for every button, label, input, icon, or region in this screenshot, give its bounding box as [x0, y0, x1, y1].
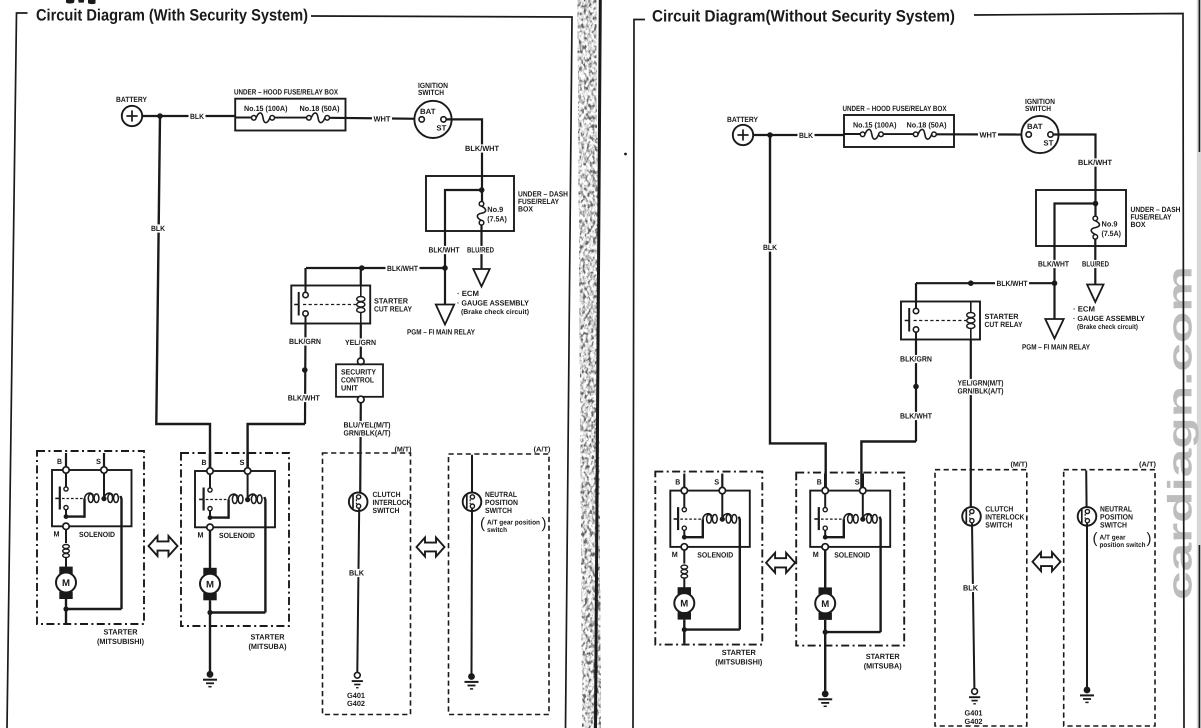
scan gutter dark line [596, 0, 601, 728]
svg-text:Circuit Diagram (With Security: Circuit Diagram (With Security System) [36, 6, 308, 24]
wire relay leg to starter S (right) [861, 442, 916, 492]
double arrow M/T-A/T (right) [1033, 552, 1061, 571]
svg-text:BLK/GRN: BLK/GRN [900, 355, 932, 364]
svg-text:UNDER – HOOD FUSE/RELAY BOX: UNDER – HOOD FUSE/RELAY BOX [843, 104, 947, 113]
node BLK/WHT T junction [442, 265, 448, 271]
label BLK (M/T right) [962, 584, 980, 592]
node under-dash junction [479, 187, 485, 193]
node splice BLK/GRN-BLK/WHT [302, 367, 308, 373]
node under-dash junction (right) [1093, 201, 1099, 207]
security control unit (left) [358, 358, 365, 365]
svg-text:A/T gear: A/T gear [1100, 535, 1126, 542]
svg-text:SWITCH: SWITCH [985, 521, 1012, 530]
label BLU/YEL(M/T) GRN/BLK(A/T) [342, 421, 392, 429]
wire battery down to starter B (right) [770, 135, 826, 491]
wire relay contact leg up (right) [915, 283, 917, 301]
svg-text:G402: G402 [965, 717, 983, 726]
svg-text:BLK/WHT: BLK/WHT [465, 144, 499, 153]
wire relay coil to security unit [360, 324, 362, 359]
triangle connector ECM (right) [1087, 285, 1103, 303]
dashed box M/T (right) [935, 470, 1027, 726]
svg-text:BLK: BLK [799, 131, 813, 140]
wire ignition ST down (right) [1053, 135, 1095, 217]
svg-text:BLK/WHT: BLK/WHT [1078, 158, 1112, 167]
neutral position switch (right) [1078, 507, 1097, 526]
svg-text:PGM – FI MAIN RELAY: PGM – FI MAIN RELAY [1022, 343, 1090, 352]
svg-text:BLK/WHT: BLK/WHT [997, 279, 1028, 288]
svg-text:): ) [1147, 530, 1152, 547]
svg-text:BAT: BAT [1027, 122, 1043, 131]
ground A/T (left) [468, 673, 475, 680]
label BLK/WHT ignition (right) [1077, 158, 1114, 166]
svg-text:UNIT: UNIT [341, 384, 358, 393]
svg-text:ST: ST [1043, 139, 1053, 148]
node relay coil junction (right) [968, 280, 974, 286]
svg-text:BLK: BLK [151, 224, 165, 233]
label YEL/GRN(M/T) GRN/BLK(A/T) [956, 379, 1005, 387]
svg-text:SWITCH: SWITCH [485, 506, 512, 515]
wire neutral switch to ground (right) [1086, 523, 1088, 687]
label BLK vertical (right) [762, 243, 779, 251]
svg-text:No.18 (50A): No.18 (50A) [300, 104, 340, 113]
triangle connector ECM (left) [473, 269, 489, 287]
svg-text:GRN/BLK(A/T): GRN/BLK(A/T) [344, 429, 391, 438]
node battery junction (right) [767, 132, 773, 138]
label YEL/GRN [344, 338, 378, 346]
svg-text:BOX: BOX [1131, 220, 1146, 229]
svg-text:BLU/RED: BLU/RED [467, 246, 494, 255]
ground A/T (right) [1084, 687, 1091, 694]
svg-text:WHT: WHT [374, 115, 391, 124]
wire relay coil leg up [360, 268, 362, 286]
svg-text:G402: G402 [347, 699, 365, 708]
label BLU/RED (right) [1081, 260, 1111, 268]
svg-text:BLK/WHT: BLK/WHT [1038, 260, 1069, 269]
label BLU/RED [466, 246, 496, 254]
fuse No.9 7.5A (right) [1093, 216, 1098, 221]
wire under-dash internal left leg (right) [1055, 204, 1096, 284]
wire battery to fuse box [753, 134, 844, 136]
svg-text:BLU/RED: BLU/RED [1082, 260, 1109, 269]
svg-text:No.9: No.9 [1102, 220, 1118, 229]
triangle connector PGM-FI (right) [1045, 319, 1063, 339]
wire fuse box to ignition (right) [936, 133, 1026, 135]
wire to PGM-FI relay triangle [444, 268, 446, 305]
under-hood fuse/relay box (right) [844, 115, 954, 147]
label WHT (right) [978, 131, 998, 139]
starter MITSUBA (left page) [181, 453, 289, 687]
wire relay coil down to clutch switch (right) [970, 340, 972, 510]
label BLK/GRN (right) [899, 355, 934, 363]
svg-text:BAT: BAT [420, 107, 436, 116]
wire relay contact leg down BLK/GRN (right) [915, 340, 917, 442]
svg-text:position switch: position switch [1100, 542, 1146, 549]
label BLK [189, 112, 206, 120]
svg-text:(7.5A): (7.5A) [487, 215, 507, 224]
svg-text:No.15 (100A): No.15 (100A) [853, 121, 897, 130]
wire horizontal BLK/WHT bus (right) [916, 282, 1055, 284]
svg-text:(Brake check circuit): (Brake check circuit) [1077, 324, 1138, 331]
svg-text:GRN/BLK(A/T): GRN/BLK(A/T) [958, 387, 1004, 396]
svg-text:A/T gear position: A/T gear position [487, 520, 540, 527]
svg-text:SWITCH: SWITCH [373, 506, 400, 515]
wire relay contact leg down BLK/GRN [304, 324, 307, 425]
cut-off text remnant top left [66, 0, 75, 4]
svg-text:BATTERY: BATTERY [116, 95, 147, 104]
node BLK/WHT T junction (right) [1052, 280, 1058, 286]
svg-text:SWITCH: SWITCH [418, 88, 444, 97]
starter MITSUBA (right page) [796, 473, 904, 707]
label BLK vertical [150, 224, 167, 232]
wire battery to fuse box [142, 115, 235, 117]
svg-text:(Brake check circuit): (Brake check circuit) [461, 309, 529, 316]
svg-text:WHT: WHT [980, 131, 997, 140]
wire clutch switch to ground (right) [972, 523, 974, 688]
node battery junction [157, 113, 163, 119]
wire battery down to starter B [156, 116, 210, 471]
svg-text:UNDER – HOOD FUSE/RELAY BOX: UNDER – HOOD FUSE/RELAY BOX [234, 88, 338, 97]
svg-text:BLK/GRN: BLK/GRN [289, 337, 321, 346]
svg-text:BLK: BLK [763, 243, 777, 252]
svg-text:· GAUGE ASSEMBLY: · GAUGE ASSEMBLY [457, 299, 529, 308]
label BLK/WHT splice (left) [286, 394, 321, 402]
wire fuse No.9 to BLU/RED arrow (right) [1094, 239, 1096, 284]
dashed box A/T (right) [1064, 470, 1155, 726]
svg-text:CUT RELAY: CUT RELAY [985, 320, 1023, 329]
svg-text:BLK: BLK [349, 569, 364, 578]
starter MITSUBISHI (right page) [655, 472, 762, 667]
wire under-dash internal left leg [445, 190, 482, 268]
svg-text:(M/T): (M/T) [395, 446, 412, 454]
svg-text:No.18 (50A): No.18 (50A) [907, 121, 947, 130]
label BLK/WHT ignition [464, 144, 501, 152]
fuse No.9 7.5A (left) [479, 202, 484, 207]
starter cut relay (left) [291, 286, 370, 324]
svg-text:BLK/WHT: BLK/WHT [429, 246, 460, 255]
double arrow M/T-A/T (left) [417, 538, 445, 557]
label BLK (M/T left) [348, 569, 366, 577]
label WHT [372, 115, 392, 123]
svg-text:BLK/WHT: BLK/WHT [900, 412, 932, 421]
label BLK/GRN (left) [288, 337, 323, 345]
left page title rule and right border [311, 16, 572, 728]
svg-text:SWITCH: SWITCH [1100, 521, 1127, 530]
svg-text:SWITCH: SWITCH [1025, 104, 1051, 113]
svg-text:BLK: BLK [963, 584, 978, 593]
label BLK/WHT bus (right) [995, 280, 1029, 288]
svg-text:YEL/GRN: YEL/GRN [345, 338, 376, 347]
svg-text:(A/T): (A/T) [534, 446, 551, 454]
label BLK/WHT under-dash [427, 246, 461, 254]
starter cut relay (right) [901, 302, 980, 340]
svg-text:No.9: No.9 [487, 205, 503, 214]
svg-text:ST: ST [436, 123, 446, 132]
wire A/T box top to neutral switch [471, 455, 473, 494]
wire fuse No.9 to BLU/RED arrow [480, 225, 482, 269]
svg-text:): ) [542, 515, 547, 532]
double arrow starters (left) [149, 536, 178, 556]
svg-text:(A/T): (A/T) [1139, 461, 1156, 469]
wire relay leg to starter S [248, 424, 305, 471]
svg-text:cardiagn.com: cardiagn.com [1162, 266, 1200, 600]
svg-text:switch: switch [487, 527, 507, 534]
under-dash fuse/relay box (left) [426, 176, 514, 231]
wire A/T box top to neutral switch (right) [1085, 471, 1087, 510]
ground G401 G402 (right) [972, 689, 978, 695]
clutch interlock switch (right) [962, 507, 981, 526]
label BLK/WHT splice (right) [899, 412, 934, 420]
dashed box M/T (left) [323, 453, 411, 715]
svg-text:· ECM: · ECM [457, 289, 479, 298]
wire fuse box to ignition [329, 118, 419, 119]
svg-text:(: ( [1093, 530, 1098, 547]
svg-text:No.15 (100A): No.15 (100A) [244, 104, 288, 113]
wire clutch switch to ground [357, 509, 359, 672]
svg-text:· ECM: · ECM [1073, 305, 1095, 314]
svg-text:PGM – FI MAIN RELAY: PGM – FI MAIN RELAY [407, 328, 475, 337]
wire security unit to clutch switch [359, 403, 362, 494]
page right edge strip [1197, 0, 1201, 728]
svg-text:(M/T): (M/T) [1011, 461, 1028, 469]
left page frame bracket [7, 13, 28, 728]
wire ignition ST to under-dash box [446, 119, 482, 202]
double arrow starters (right) [766, 553, 795, 573]
scan gutter noise band [578, 0, 601, 728]
starter MITSUBISHI (left page) [37, 451, 144, 646]
triangle connector PGM-FI (left) [436, 305, 454, 325]
neutral position switch (left) [463, 493, 482, 512]
wire horizontal BLK/WHT bus (left) [306, 267, 445, 269]
dashed box A/T (left) [449, 454, 550, 715]
wire neutral switch to ground [471, 509, 474, 674]
right page title rule and right border [974, 14, 1184, 728]
speck near right page border [624, 153, 627, 156]
svg-text:(7.5A): (7.5A) [1102, 229, 1122, 238]
ground G401 G402 (left) [354, 672, 360, 678]
label BLK (right) [798, 131, 815, 139]
svg-text:· GAUGE ASSEMBLY: · GAUGE ASSEMBLY [1073, 314, 1145, 323]
wire to PGM-FI relay triangle (right) [1053, 283, 1055, 319]
svg-text:CUT RELAY: CUT RELAY [374, 305, 412, 314]
svg-text:BLK/WHT: BLK/WHT [387, 264, 418, 273]
under-dash fuse/relay box (right) [1036, 190, 1126, 246]
node relay coil junction [359, 265, 365, 271]
svg-text:Circuit Diagram(Without Securi: Circuit Diagram(Without Security System) [652, 7, 955, 25]
wire relay contact leg up [304, 268, 306, 286]
label BLK/WHT bus [386, 264, 420, 272]
label BLK/WHT under-dash (right) [1037, 260, 1071, 268]
svg-text:(: ( [480, 515, 485, 532]
svg-text:BLK/WHT: BLK/WHT [288, 394, 320, 403]
under-hood fuse/relay box (left) [235, 99, 345, 131]
svg-text:BLK: BLK [190, 112, 204, 121]
svg-text:BOX: BOX [518, 205, 533, 214]
clutch interlock switch (left) [349, 493, 368, 512]
node splice BLK/GRN-BLK/WHT (right) [913, 384, 919, 390]
right page frame bracket [633, 20, 645, 728]
svg-text:BATTERY: BATTERY [727, 115, 758, 124]
